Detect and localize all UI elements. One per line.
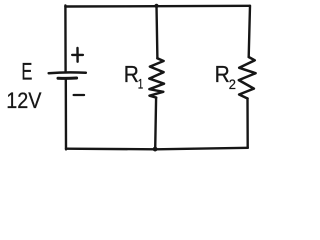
wire left upper (battery + lead) xyxy=(64,6,67,72)
svg-text:12V: 12V xyxy=(6,88,42,113)
wire top xyxy=(65,5,250,8)
svg-text:E: E xyxy=(21,59,32,86)
node junction bottom xyxy=(153,147,158,152)
battery E negative plate (short thick) xyxy=(58,77,77,80)
svg-text:R: R xyxy=(124,61,139,87)
wire right upper xyxy=(249,6,250,57)
battery plus sign xyxy=(72,48,83,62)
wire bottom xyxy=(66,148,248,150)
svg-text:1: 1 xyxy=(138,75,144,91)
wire middle upper (R1 top lead) xyxy=(155,6,158,59)
wire left lower (battery - lead) xyxy=(65,79,68,149)
battery minus sign xyxy=(74,94,85,96)
svg-text:R: R xyxy=(215,61,230,87)
resistor R2 xyxy=(239,57,256,99)
wire right lower (R2 bottom lead) xyxy=(246,99,249,148)
wire middle lower (R1 bottom lead) xyxy=(154,98,157,150)
battery E positive plate (long) xyxy=(49,71,86,74)
svg-text:2: 2 xyxy=(229,77,236,92)
resistor R1 xyxy=(149,58,164,97)
node junction top xyxy=(154,4,158,8)
